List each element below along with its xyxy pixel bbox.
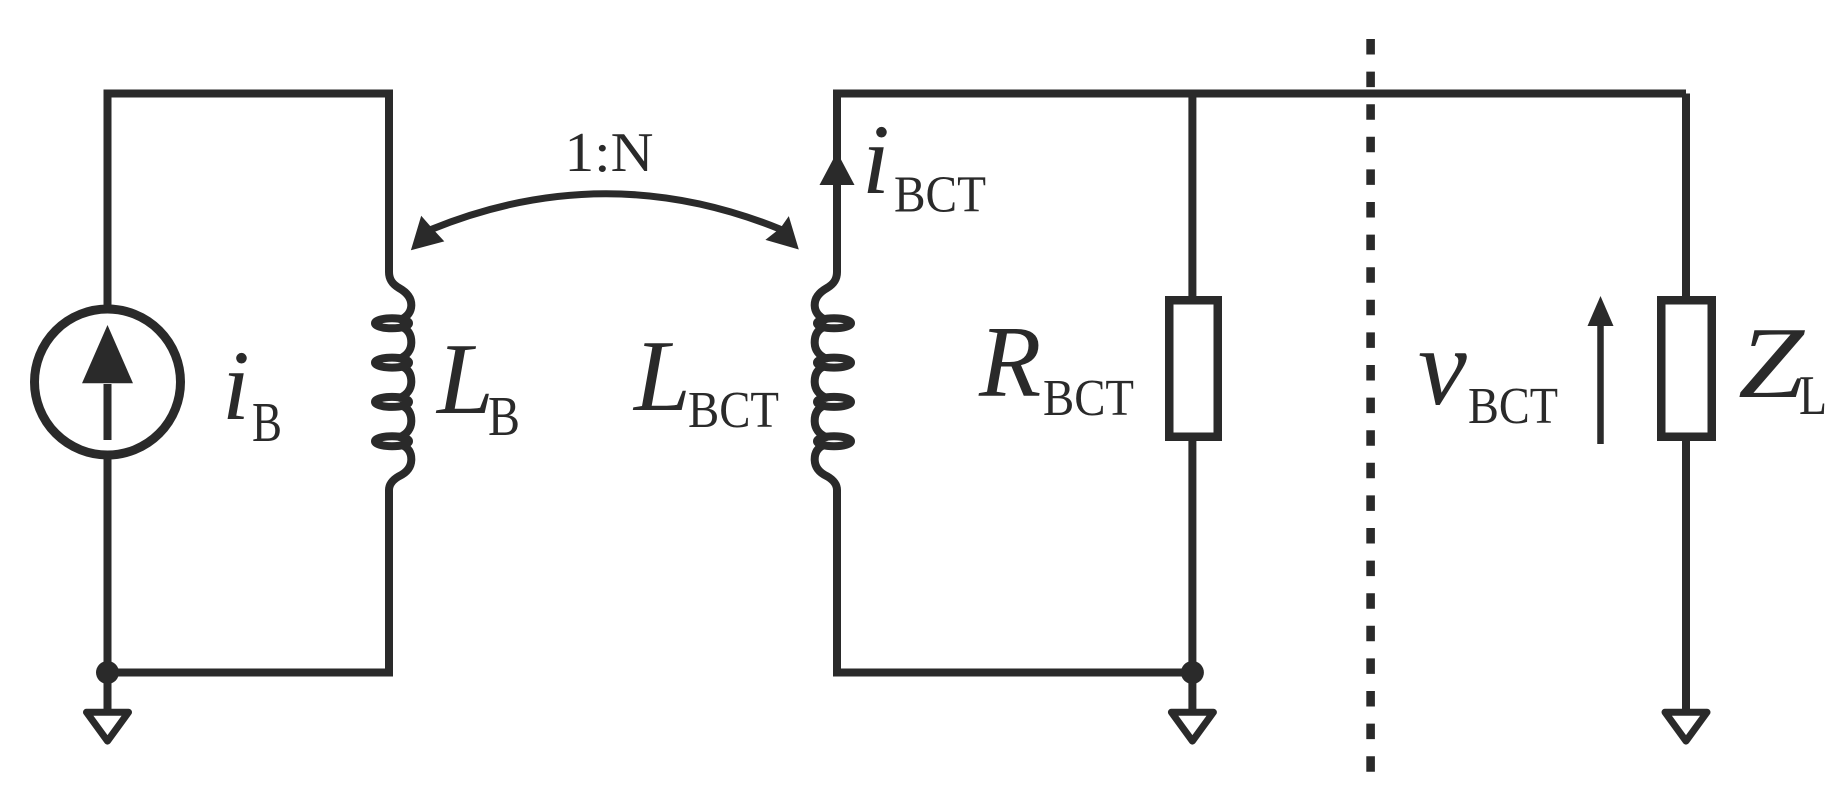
voltage arrow vBCT bbox=[1588, 296, 1614, 444]
svg-text:1:N: 1:N bbox=[565, 122, 654, 184]
svg-text:B: B bbox=[252, 392, 282, 454]
node A junction dot bbox=[96, 661, 119, 684]
ground left bbox=[87, 673, 129, 742]
wire ZL branch top bbox=[1682, 94, 1690, 301]
resistor RBCT bbox=[1169, 300, 1218, 437]
transformer coupling arrow 1:N bbox=[411, 194, 799, 251]
svg-text:B: B bbox=[488, 386, 520, 448]
wire left-loop top run bbox=[108, 94, 390, 307]
inductor LBCT coil (mirrored) bbox=[815, 272, 851, 490]
svg-text:i: i bbox=[222, 330, 250, 441]
wire RBCT branch top bbox=[1188, 94, 1196, 301]
current source iB circle bbox=[35, 309, 181, 455]
svg-text:Z: Z bbox=[1738, 307, 1805, 420]
wire ZL branch bottom bbox=[1682, 437, 1690, 709]
inductor LB coil bbox=[375, 272, 411, 490]
svg-text:L: L bbox=[632, 320, 691, 433]
current arrow iBCT on wire bbox=[820, 152, 855, 185]
wire RBCT branch bottom bbox=[1188, 437, 1196, 673]
svg-text:BCT: BCT bbox=[1468, 378, 1558, 435]
current source iB arrow bbox=[82, 325, 133, 440]
svg-text:i: i bbox=[862, 104, 890, 215]
dashed boundary line bbox=[1366, 39, 1375, 772]
svg-text:R: R bbox=[978, 306, 1041, 419]
ground middle bbox=[1171, 673, 1213, 742]
svg-text:BCT: BCT bbox=[894, 167, 986, 224]
node B junction dot bbox=[1181, 661, 1204, 684]
svg-text:L: L bbox=[1799, 365, 1827, 427]
load ZL bbox=[1661, 300, 1712, 437]
svg-text:BCT: BCT bbox=[688, 382, 779, 439]
svg-text:L: L bbox=[435, 323, 494, 436]
wire middle top run bbox=[837, 94, 1686, 273]
wire middle bottom run bbox=[837, 490, 1192, 673]
ground right bbox=[1665, 712, 1707, 741]
wire left-loop bottom run bbox=[108, 458, 390, 673]
svg-text:BCT: BCT bbox=[1043, 370, 1134, 427]
svg-text:v: v bbox=[1418, 306, 1467, 428]
